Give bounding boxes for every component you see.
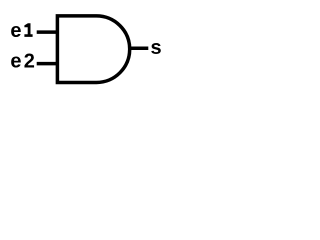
wire s output [130, 46, 149, 50]
svg-text:e: e [10, 20, 21, 42]
svg-text:e: e [10, 50, 21, 72]
wire e1 input [37, 30, 58, 34]
wire e2 input [37, 62, 58, 66]
svg-text:s: s [151, 37, 162, 59]
svg-text:2: 2 [24, 50, 35, 72]
AND gate [57, 16, 129, 83]
